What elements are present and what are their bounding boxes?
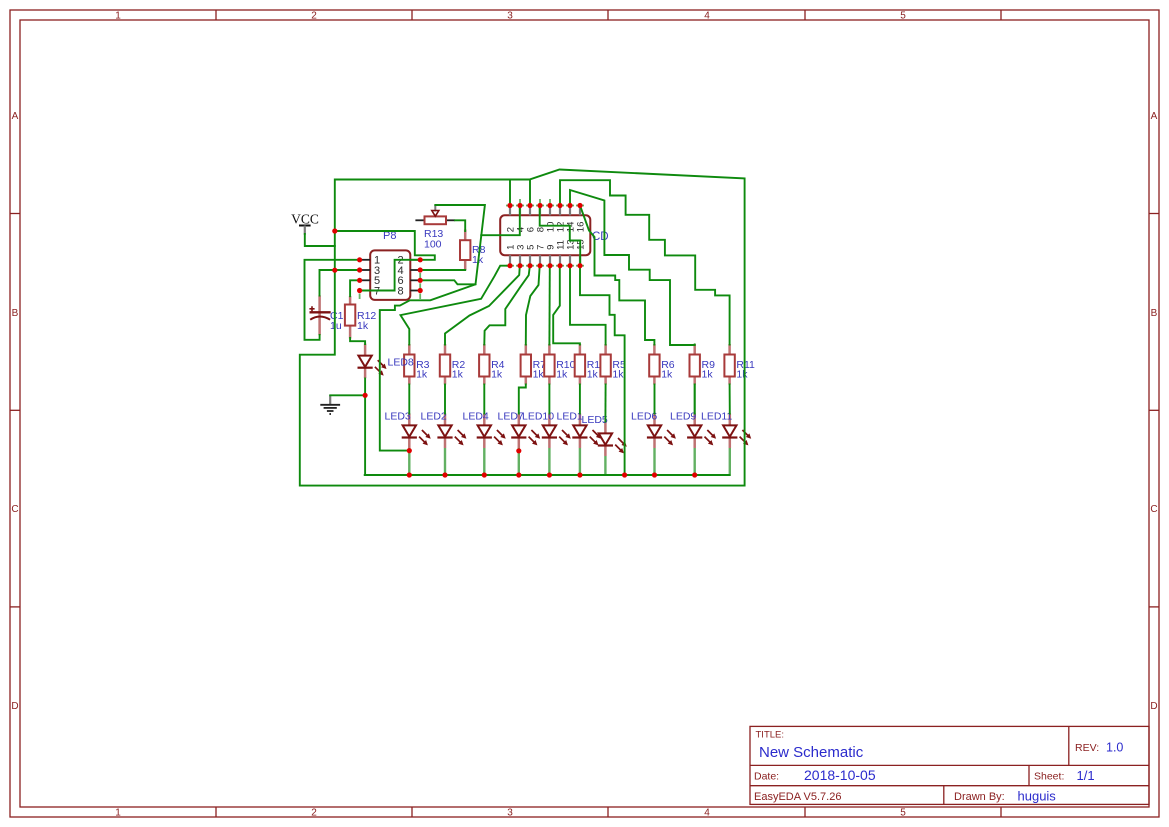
svg-text:1k: 1k [736, 369, 748, 381]
svg-text:1k: 1k [556, 369, 568, 381]
wire IC pin13 to R5 [570, 266, 606, 345]
wire slant tee to IC pin4 [481, 206, 520, 236]
svg-text:1: 1 [115, 808, 121, 819]
svg-text:REV:: REV: [1075, 742, 1099, 754]
wire node to LED bus [364, 395, 366, 475]
wire VCC ring rail [300, 170, 745, 486]
wire LED cathode bus [365, 474, 730, 476]
wire LED cathode to bus [694, 448, 696, 474]
LED LED5 [582, 414, 627, 456]
power flag VCC [291, 212, 319, 235]
svg-text:LED6: LED6 [631, 411, 657, 423]
wire P8 pin6 to R13 wiper [420, 205, 485, 284]
LED LED1 [557, 411, 602, 449]
IC U1 "CD" 16-pin [500, 199, 608, 266]
wire IC pin6 to VCC rail [529, 180, 531, 206]
wire LED cathode to bus [483, 448, 485, 474]
wire P8 pin4 to R8 [420, 269, 465, 271]
svg-text:1.0: 1.0 [1106, 741, 1123, 755]
resistor R7 1k [521, 344, 547, 385]
resistor R10 1k [544, 344, 575, 385]
wire IC pin14 staircase to R9 [570, 190, 695, 345]
resistor R5 1k [600, 344, 626, 385]
wire R11 to LED11 [729, 385, 731, 414]
wire IC pin8 to pin15 [540, 206, 581, 266]
LED LED10 [522, 411, 571, 449]
resistor R6 1k [649, 344, 675, 385]
wire LED cathode to bus [729, 448, 731, 474]
svg-text:C: C [1150, 504, 1157, 515]
resistor R4 1k [479, 344, 505, 385]
LED LED8 [358, 344, 414, 379]
ground [320, 395, 340, 414]
wire resistor to LED [483, 385, 485, 414]
svg-text:1k: 1k [452, 369, 464, 381]
wire IC pin12 staircase to R11 [560, 180, 730, 344]
wire resistor to LED [548, 385, 550, 414]
wire P8 pin3 to C1 top [320, 270, 360, 296]
svg-text:Drawn By:: Drawn By: [954, 791, 1005, 803]
wire resistor to LED [408, 385, 410, 414]
wire IC pin15 staircase to bus [580, 266, 625, 475]
svg-text:1k: 1k [587, 369, 599, 381]
svg-text:A: A [1151, 111, 1158, 122]
svg-text:TITLE:: TITLE: [756, 730, 785, 741]
wire resistor to LED [694, 385, 696, 414]
wire P8 pin1 to C1 bottom [305, 260, 360, 340]
resistor R3 1k [404, 344, 430, 385]
wire R9 to LED9 [694, 385, 696, 414]
wire resistor to LED [579, 385, 581, 414]
wire VCC to P8 pin2 [335, 231, 435, 260]
svg-text:1/1: 1/1 [1077, 768, 1095, 783]
svg-text:LED7: LED7 [498, 411, 524, 423]
svg-text:1: 1 [115, 11, 121, 22]
wire IC pin16 staircase to R6 [580, 206, 654, 345]
svg-text:B: B [1151, 308, 1158, 319]
wire VCC rail to P8 pin3 row [334, 231, 336, 270]
wire IC pin9 to R10 [548, 266, 550, 345]
wire IC pin1 to R3 [401, 266, 511, 345]
wire IC pin2 to VCC rail [509, 180, 511, 206]
wire IC pin7 to R7 [526, 266, 540, 345]
svg-text:1k: 1k [533, 369, 545, 381]
svg-text:3: 3 [507, 11, 513, 22]
junction dots [332, 203, 697, 478]
svg-text:4: 4 [704, 808, 710, 819]
wire LED8 cathode [364, 379, 366, 396]
svg-text:1k: 1k [702, 369, 714, 381]
wire IC pin3 to R2 [445, 266, 520, 345]
resistor R1 1k [575, 344, 601, 385]
svg-text:2: 2 [311, 11, 317, 22]
svg-text:D: D [11, 701, 18, 712]
wire LED5 cathode to bus [604, 456, 606, 474]
svg-text:100: 100 [424, 239, 442, 251]
svg-text:huguis: huguis [1018, 789, 1057, 804]
wire R5 to LED5 [604, 385, 606, 422]
svg-text:A: A [12, 111, 19, 122]
resistor R12 1k [345, 296, 377, 339]
svg-text:Sheet:: Sheet: [1034, 771, 1064, 783]
connector P8 [360, 230, 421, 300]
svg-text:LED5: LED5 [582, 414, 608, 426]
wire LED cathode to bus [444, 448, 446, 474]
svg-text:16: 16 [575, 222, 586, 233]
svg-text:LED9: LED9 [670, 411, 696, 423]
svg-text:LED11: LED11 [701, 411, 732, 423]
wire R13 to R8 [455, 220, 465, 231]
wire R12 to LED8 [350, 338, 365, 344]
svg-text:1k: 1k [612, 369, 624, 381]
svg-text:1k: 1k [491, 369, 503, 381]
svg-text:5: 5 [900, 11, 906, 22]
wire R7 to LED7 [519, 385, 526, 414]
svg-text:2018-10-05: 2018-10-05 [804, 767, 876, 783]
svg-text:1u: 1u [330, 320, 342, 332]
wire LED7 cathode to bus [518, 448, 520, 474]
wire resistor to LED [444, 385, 446, 414]
svg-text:LED3: LED3 [385, 411, 411, 423]
svg-text:1k: 1k [357, 320, 369, 332]
LED LED3 [385, 411, 431, 449]
svg-text:D: D [1150, 701, 1157, 712]
wire IC pin5 to R4 [484, 266, 530, 345]
wire LED cathode to bus [548, 448, 550, 474]
wire LED cathode to bus [579, 448, 581, 474]
resistor R9 1k [690, 344, 716, 385]
LED LED11 [701, 411, 751, 449]
resistor R11 1k [724, 344, 755, 385]
wire VCC symbol to rail [305, 234, 335, 246]
LED LED2 [421, 411, 467, 449]
svg-text:Date:: Date: [754, 771, 779, 783]
svg-text:New Schematic: New Schematic [759, 744, 864, 761]
svg-text:1k: 1k [661, 369, 673, 381]
svg-text:LED2: LED2 [421, 411, 447, 423]
title block [750, 726, 1149, 804]
svg-text:4: 4 [704, 11, 710, 22]
svg-text:LED8: LED8 [388, 357, 414, 369]
svg-text:8: 8 [398, 285, 404, 297]
wire LED cathode to bus [653, 448, 655, 474]
wire LED3 cathode net [380, 284, 476, 450]
svg-text:VCC: VCC [291, 212, 319, 227]
svg-text:EasyEDA V5.7.26: EasyEDA V5.7.26 [754, 791, 841, 803]
wire P8 pin5 to R12 [350, 280, 360, 296]
LED LED7 [498, 411, 541, 449]
wire ground to node [330, 394, 365, 396]
svg-text:5: 5 [900, 808, 906, 819]
svg-text:2: 2 [311, 808, 317, 819]
svg-text:C: C [11, 504, 18, 515]
LED LED9 [670, 411, 716, 449]
wire IC pin11 to R1 [553, 266, 580, 345]
wire P8 pin7 to pin2 [360, 260, 421, 291]
LED LED6 [631, 411, 676, 449]
resistor R8 1k [460, 230, 486, 271]
svg-text:3: 3 [507, 808, 513, 819]
LED LED4 [463, 411, 506, 449]
wire resistor to LED [654, 385, 656, 414]
resistor R2 1k [440, 344, 466, 385]
wire LED cathode to bus [408, 448, 410, 474]
capacitor C1 1u (polarized) [309, 295, 343, 335]
svg-text:1k: 1k [416, 369, 428, 381]
potentiometer R13 100 [415, 205, 455, 251]
svg-text:B: B [12, 308, 19, 319]
